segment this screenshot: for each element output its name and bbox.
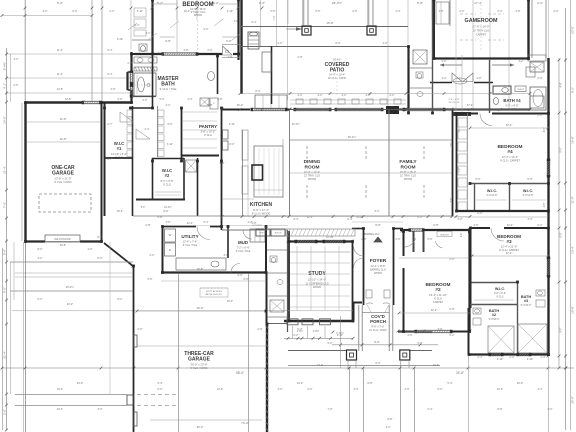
window: south bath2 — [490, 352, 502, 354]
svg-text:6'-8": 6'-8" — [560, 232, 563, 237]
svg-text:6'-5": 6'-5" — [353, 10, 358, 13]
svg-text:12'-4": 12'-4" — [507, 223, 514, 227]
svg-text:5'-0"x8'-0": 5'-0"x8'-0" — [521, 304, 532, 307]
window row extra ticks — [239, 108, 242, 111]
svg-text:3'-0": 3'-0" — [458, 218, 463, 221]
svg-text:14'-2": 14'-2" — [297, 381, 304, 385]
bottom row extra ticks — [24, 367, 27, 370]
svg-text:9'-0": 9'-0" — [560, 327, 563, 332]
dimension line: right margin vertical 2 — [558, 58, 560, 368]
svg-text:20'-0": 20'-0" — [67, 303, 73, 306]
wall: WIC2 south thick — [136, 199, 185, 201]
window: bedroom3 east — [546, 258, 548, 276]
window: garage north — [83, 100, 100, 102]
svg-text:6'-0": 6'-0" — [38, 298, 43, 301]
svg-text:6'-8": 6'-8" — [165, 39, 171, 43]
wall: master bath north jog — [131, 53, 135, 55]
svg-text:9' CLG / WOOD: 9' CLG / WOOD — [252, 212, 271, 216]
svg-text:8'-0": 8'-0" — [336, 42, 341, 45]
svg-text:9' CLG: 9' CLG — [204, 134, 212, 137]
svg-text:8'-0": 8'-0" — [560, 147, 563, 152]
svg-text:6'-8": 6'-8" — [417, 1, 423, 5]
svg-text:3'-1": 3'-1" — [158, 52, 163, 55]
fixture: pool bath wh — [413, 50, 427, 64]
kitchen island bold — [252, 165, 263, 180]
svg-text:5'-0": 5'-0" — [328, 342, 333, 345]
svg-text:12'-4" x 7'-4": 12'-4" x 7'-4" — [183, 240, 198, 244]
wall: bed2 block south exterior — [398, 331, 432, 333]
svg-text:5'-4": 5'-4" — [108, 49, 113, 52]
patio post west — [302, 26, 311, 35]
svg-text:3'-0": 3'-0" — [3, 409, 7, 415]
svg-text:4'-1": 4'-1" — [3, 83, 7, 89]
door: bedroom2 arcs — [404, 238, 415, 247]
svg-text:8'-0": 8'-0" — [376, 362, 381, 365]
wall: wic row south thick — [456, 210, 548, 212]
patio beam arrows to post — [296, 27, 302, 31]
wall: bedroom2 west — [403, 231, 405, 256]
door: utility arc — [197, 227, 210, 240]
svg-text:4'-0": 4'-0" — [537, 1, 543, 5]
wall: bedroom3 north — [470, 227, 490, 229]
svg-text:4'-5": 4'-5" — [439, 10, 444, 13]
svg-text:8'-0": 8'-0" — [38, 248, 43, 251]
svg-text:10'-0": 10'-0" — [497, 388, 503, 391]
svg-text:5'-2": 5'-2" — [157, 1, 163, 5]
svg-text:WOOD: WOOD — [374, 272, 382, 275]
svg-text:6'-0"x4'-8": 6'-0"x4'-8" — [523, 194, 534, 197]
fixture: master wet room — [134, 73, 156, 96]
svg-text:6'-8": 6'-8" — [226, 39, 232, 43]
svg-text:5'-0": 5'-0" — [204, 28, 209, 31]
hall dimension ticks row — [222, 216, 470, 218]
dimension line: bottom overall — [2, 367, 574, 369]
svg-text:3'-2": 3'-2" — [519, 60, 524, 63]
interior dim line: study — [290, 251, 350, 253]
svg-text:10'-8": 10'-8" — [60, 243, 67, 247]
window: bedroom2 south — [416, 329, 451, 331]
kitchen perimeter counter — [254, 146, 283, 197]
svg-text:8'-0": 8'-0" — [97, 235, 102, 239]
svg-text:2'-8": 2'-8" — [145, 223, 150, 227]
window sill lines patio — [290, 99, 406, 101]
svg-text:8'-6": 8'-6" — [168, 123, 173, 126]
fixture: master vanity counter — [134, 57, 157, 63]
svg-text:2'-0": 2'-0" — [554, 10, 559, 13]
svg-text:5'-4": 5'-4" — [447, 381, 452, 385]
svg-text:12'-10": 12'-10" — [326, 235, 334, 239]
closet hatch strip — [270, 300, 284, 312]
svg-text:12'-8" x 21'-0": 12'-8" x 21'-0" — [54, 177, 71, 181]
svg-text:4'-0": 4'-0" — [278, 42, 283, 45]
outdoor kitchen wall — [271, 46, 273, 104]
svg-text:6'-4": 6'-4" — [252, 21, 257, 24]
wall: three-car garage east hatched — [266, 324, 268, 432]
fixture: bath4 toilet — [493, 98, 498, 105]
svg-text:11'-2": 11'-2" — [57, 73, 63, 76]
svg-text:4'-0": 4'-0" — [298, 94, 303, 97]
long dimension line y311 — [12, 310, 353, 312]
wall: wic divider west — [474, 183, 476, 211]
svg-text:30'-0" x 23'-8": 30'-0" x 23'-8" — [190, 363, 207, 367]
svg-text:3'-6": 3'-6" — [354, 388, 359, 391]
xbox: patio slab bath3 — [518, 324, 547, 353]
door: bedroom3 arc — [491, 228, 504, 241]
driveway apron lines solid — [15, 394, 127, 396]
svg-text:#4: #4 — [507, 149, 513, 155]
svg-text:FOYER: FOYER — [370, 258, 387, 264]
fixture: pool bath toilet — [416, 72, 423, 78]
svg-text:2'-6": 2'-6" — [208, 49, 213, 52]
svg-text:2'-0": 2'-0" — [510, 356, 515, 359]
wall: master bath south / WIC1 north — [131, 107, 152, 109]
svg-text:8x8 OH DOOR: 8x8 OH DOOR — [55, 238, 71, 241]
interior dim line: bedroom2 lower — [399, 312, 469, 314]
svg-text:12'-8": 12'-8" — [60, 137, 67, 141]
svg-text:2'-0": 2'-0" — [150, 254, 155, 257]
svg-text:3'-0": 3'-0" — [234, 20, 239, 23]
dimension line: left margin vertical — [6, 48, 8, 430]
walkway stub lines — [347, 360, 349, 368]
patio east wall — [407, 46, 409, 113]
hall lines between wics — [133, 215, 197, 217]
svg-text:DINING: DINING — [304, 159, 321, 165]
vertical dim lines interior — [455, 0, 457, 113]
xbox: patio slab bath2 — [488, 326, 514, 353]
svg-text:2'-4": 2'-4" — [461, 233, 463, 238]
svg-text:BATH #4: BATH #4 — [503, 98, 521, 103]
left margin ticks row2 — [13, 242, 15, 300]
window: master west 2 — [129, 86, 131, 96]
wall: utility south / garage north — [161, 271, 266, 273]
svg-text:4'-2": 4'-2" — [442, 77, 447, 80]
svg-text:WOOD: WOOD — [194, 14, 202, 17]
pool bath walls — [432, 0, 434, 114]
svg-text:8'-2": 8'-2" — [375, 210, 380, 213]
svg-text:8'-0": 8'-0" — [259, 1, 265, 5]
svg-text:ROOM: ROOM — [305, 165, 320, 171]
wall: gameroom west — [433, 0, 435, 58]
svg-text:3'-6": 3'-6" — [405, 388, 410, 391]
svg-text:9' CLG / CONC: 9' CLG / CONC — [190, 367, 207, 370]
wall: WIC2 north — [152, 158, 184, 160]
svg-text:12'-4" x 8'-8": 12'-4" x 8'-8" — [370, 264, 385, 268]
wall: study south hatched — [284, 320, 353, 322]
svg-text:3'-4": 3'-4" — [157, 381, 162, 385]
svg-text:3'-8": 3'-8" — [218, 98, 223, 101]
fixture: powder toilet — [270, 256, 277, 262]
wall: WIC1 east — [132, 106, 134, 216]
wall: angled garage connector — [104, 243, 133, 266]
svg-text:13'-4": 13'-4" — [571, 246, 575, 254]
svg-text:21'-4": 21'-4" — [3, 166, 7, 174]
svg-text:4'-0": 4'-0" — [544, 128, 546, 133]
wall: west exterior master suite — [130, 52, 132, 72]
svg-text:2'-6" x 6'-8": 2'-6" x 6'-8" — [448, 99, 459, 101]
svg-text:6'-4": 6'-4" — [428, 408, 433, 411]
svg-text:6'-2": 6'-2" — [297, 327, 302, 331]
attic access marker foyer — [374, 237, 382, 242]
svg-text:WOOD: WOOD — [308, 178, 316, 181]
dimension drops below study windows — [292, 326, 294, 338]
dimension lines: left yard horizontals — [7, 53, 131, 55]
garage interior dim lines — [27, 121, 100, 123]
garage offset line under utility — [161, 280, 266, 282]
svg-text:4'-4": 4'-4" — [538, 388, 543, 391]
svg-text:PKT DOOR: PKT DOOR — [449, 102, 460, 104]
wall: bedroom4 closet strip west — [456, 113, 458, 211]
closet box gameroom NW — [436, 2, 449, 24]
wall: gameroom east — [527, 0, 529, 58]
wall: bed3 west lower — [468, 308, 470, 355]
svg-text:30'-0": 30'-0" — [197, 425, 204, 429]
garage door label box — [45, 235, 80, 242]
cabinet boxes gameroom corner — [526, 67, 535, 77]
svg-text:5'-0": 5'-0" — [418, 342, 423, 345]
svg-text:20'-8": 20'-8" — [197, 267, 204, 271]
wall: WIC2 west — [152, 158, 154, 199]
wall: family-east/bed4 gap lines — [467, 113, 469, 211]
extension line x177 — [176, 0, 178, 54]
svg-text:1'-6": 1'-6" — [451, 143, 453, 148]
window: master west 1 — [129, 72, 131, 83]
svg-text:5'-0": 5'-0" — [475, 177, 480, 181]
wall: study east — [352, 241, 354, 321]
svg-text:16'-0": 16'-0" — [57, 388, 63, 391]
wall: foyer east — [393, 228, 395, 305]
wall: master water closet east — [217, 56, 219, 94]
svg-text:6'-2": 6'-2" — [538, 224, 543, 227]
svg-text:4'-0": 4'-0" — [390, 94, 395, 97]
left margin extra line — [10, 54, 12, 102]
wall: study west — [288, 231, 290, 321]
svg-text:5'-4": 5'-4" — [204, 221, 209, 224]
svg-text:5'-0": 5'-0" — [527, 177, 532, 181]
svg-text:24'-8": 24'-8" — [456, 371, 464, 375]
svg-text:5'-4": 5'-4" — [3, 249, 7, 255]
wall: dining/family divider — [388, 110, 390, 216]
dim stubs west of outdoor wall — [222, 43, 241, 45]
svg-text:8'-8": 8'-8" — [498, 408, 503, 411]
svg-text:9' CLG: 9' CLG — [496, 297, 503, 299]
interior dim line: bedroom4 — [470, 127, 548, 129]
svg-text:6'-8": 6'-8" — [433, 223, 438, 227]
wall: gameroom south — [434, 57, 530, 59]
svg-text:4'-10": 4'-10" — [497, 357, 504, 361]
svg-text:9' CLG: 9' CLG — [163, 184, 171, 187]
dimension line: top extension lines — [24, 0, 26, 100]
svg-text:12'-8": 12'-8" — [60, 117, 67, 121]
svg-text:8'-4": 8'-4" — [348, 218, 353, 221]
interior dim line: gameroom center dashed — [480, 4, 482, 52]
wall: master bedroom east — [237, 0, 239, 60]
wall: utility west — [162, 226, 164, 272]
svg-text:W.I.C.: W.I.C. — [495, 287, 505, 291]
svg-text:5'-6": 5'-6" — [428, 238, 433, 241]
svg-text:8'-2": 8'-2" — [118, 298, 123, 301]
svg-text:16'-0": 16'-0" — [237, 103, 244, 107]
svg-text:5'-6": 5'-6" — [271, 10, 276, 13]
svg-text:3'-6": 3'-6" — [117, 97, 122, 101]
svg-text:CHEST: CHEST — [517, 89, 525, 91]
svg-text:12'-4" x 13'-4": 12'-4" x 13'-4" — [304, 170, 321, 174]
fixture: bath4 chest — [515, 86, 526, 92]
svg-text:3'-11": 3'-11" — [167, 143, 173, 146]
svg-text:5'-0": 5'-0" — [57, 1, 63, 5]
svg-text:2'-6": 2'-6" — [362, 238, 367, 241]
svg-text:2'-8": 2'-8" — [298, 56, 303, 59]
svg-text:10' CLG / CONC: 10' CLG / CONC — [328, 77, 347, 80]
wall: south wall bed23 block — [469, 353, 549, 355]
svg-text:16'-1½": 16'-1½" — [292, 122, 301, 126]
wall: WIC1 west (garage east) — [104, 103, 106, 216]
dimension marks: master bedroom interior — [160, 36, 175, 38]
closet shelving: WIC2 — [155, 191, 181, 193]
svg-text:5'-0": 5'-0" — [438, 388, 443, 391]
left top tick line — [2, 15, 92, 17]
window: master bedroom south — [163, 52, 197, 54]
svg-text:2'-4": 2'-4" — [145, 128, 150, 131]
shelves box bedroom2 entry — [437, 232, 452, 237]
wall junction posts — [151, 0, 154, 1]
svg-text:4'-8": 4'-8" — [477, 77, 482, 80]
wall: WIC1 south — [104, 157, 133, 159]
dimension ticks: top margin row — [24, 7, 27, 10]
ceiling break lines dining-family — [290, 139, 452, 141]
svg-text:2'-6": 2'-6" — [14, 84, 19, 87]
wall: pantry/hall east — [221, 108, 223, 161]
fixture: utility counter — [176, 258, 226, 270]
wall: bath4 hall north — [430, 82, 452, 84]
svg-text:4'-0": 4'-0" — [88, 248, 93, 251]
svg-text:74'-0": 74'-0" — [241, 421, 249, 425]
wall: master WC divider — [132, 39, 152, 41]
svg-text:8'-6": 8'-6" — [73, 10, 78, 13]
svg-text:#3: #3 — [506, 239, 512, 244]
svg-text:7'-0": 7'-0" — [328, 408, 333, 411]
porch left vertical dim — [340, 316, 342, 368]
svg-text:6'-8" x 6'-0": 6'-8" x 6'-0" — [494, 292, 506, 295]
fixture: outdoor grill — [248, 32, 259, 49]
wall: powder rooms strip — [287, 230, 289, 332]
svg-text:5'-0": 5'-0" — [442, 60, 447, 63]
svg-text:14'-0": 14'-0" — [3, 116, 7, 124]
closet shelving: WIC1 — [127, 110, 132, 117]
wall: north wall garage/casita — [25, 101, 83, 103]
wall: pantry south — [181, 155, 219, 157]
svg-text:12'-0": 12'-0" — [217, 388, 223, 391]
svg-text:4'-2": 4'-2" — [248, 221, 253, 224]
svg-text:48'-1½": 48'-1½" — [348, 135, 357, 139]
svg-text:3'-0": 3'-0" — [224, 254, 229, 257]
svg-text:W.I.C.: W.I.C. — [523, 189, 533, 193]
extension lines above garage — [25, 0, 27, 102]
svg-text:6'-2": 6'-2" — [294, 334, 299, 337]
butler counter hatched band — [286, 229, 355, 236]
svg-text:6'-7": 6'-7" — [108, 158, 113, 161]
door: master WC triangle — [223, 46, 233, 55]
wall: wic divider mid — [509, 183, 511, 211]
svg-text:6'-0": 6'-0" — [511, 108, 516, 111]
svg-text:7'-2": 7'-2" — [459, 168, 461, 173]
driveway edge lines — [10, 261, 133, 263]
dashed car outline — [39, 194, 91, 212]
wall: three-car garage west — [133, 266, 135, 432]
svg-text:4'-4": 4'-4" — [188, 98, 193, 101]
window block closet top — [453, 112, 471, 116]
svg-text:9'-2": 9'-2" — [571, 87, 575, 93]
svg-text:WOOD: WOOD — [313, 286, 321, 289]
svg-text:7'-6": 7'-6" — [3, 202, 7, 208]
svg-text:12'-4": 12'-4" — [506, 123, 513, 127]
kitchen hall lines — [247, 130, 249, 216]
svg-text:BARREL CLG: BARREL CLG — [364, 233, 379, 236]
svg-text:12'-4": 12'-4" — [57, 408, 63, 411]
bedroom label dimension arrows — [152, 3, 177, 5]
svg-text:6'-2": 6'-2" — [498, 10, 503, 13]
fixture: washer dryer — [165, 229, 176, 242]
dimension line: garage mid — [137, 310, 266, 312]
svg-text:6'-10": 6'-10" — [117, 38, 123, 41]
porch rail west double — [358, 305, 360, 351]
svg-text:9' CLG / TILE: 9' CLG / TILE — [236, 250, 251, 253]
svg-text:5'-8": 5'-8" — [148, 278, 153, 281]
svg-text:8'-2": 8'-2" — [417, 215, 422, 219]
svg-text:PANTRY: PANTRY — [199, 124, 217, 129]
dimension line: right margin vertical — [565, 8, 567, 430]
svg-text:2'-2": 2'-2" — [135, 24, 140, 27]
svg-text:6'-0"x4'-8": 6'-0"x4'-8" — [487, 194, 498, 197]
svg-text:3'-6": 3'-6" — [166, 221, 171, 224]
patio beam north — [240, 26, 408, 28]
porch beam east — [409, 350, 432, 352]
svg-text:3'-2": 3'-2" — [43, 10, 48, 13]
wall: hall west of bath4 — [489, 60, 491, 113]
svg-text:24'-0": 24'-0" — [77, 381, 84, 385]
svg-text:W.I.C.: W.I.C. — [487, 189, 497, 193]
hall dim line marks — [352, 221, 403, 223]
cabinet: hall dresser — [453, 78, 467, 84]
driveway block — [127, 395, 133, 405]
wall: bedroom4 north — [456, 113, 478, 115]
svg-text:3'-0": 3'-0" — [237, 273, 242, 277]
laundry chute box — [210, 98, 218, 109]
wic bed2 walls — [470, 282, 517, 284]
svg-text:2'-6": 2'-6" — [408, 334, 413, 337]
window pilaster garage west 1 — [133, 335, 137, 347]
porch rail east double — [388, 305, 390, 351]
wall: family east — [452, 110, 454, 216]
svg-text:CARPET: CARPET — [433, 301, 444, 304]
svg-text:ROOM: ROOM — [401, 165, 416, 171]
svg-text:16'-4": 16'-4" — [117, 209, 124, 213]
svg-text:9' CLG / CONC: 9' CLG / CONC — [54, 181, 71, 184]
svg-text:9'-8": 9'-8" — [367, 381, 372, 385]
coffered ceiling grid study — [296, 246, 298, 310]
svg-text:WOOD: WOOD — [404, 178, 412, 181]
wall: wic row north — [470, 183, 548, 185]
left lot boundary lines — [25, 242, 27, 432]
misc ticks — [221, 108, 224, 111]
svg-text:2'-8": 2'-8" — [128, 62, 133, 65]
hall dim line upper — [196, 225, 288, 227]
wall: dining-family north window wall — [222, 109, 250, 111]
svg-text:2'-6": 2'-6" — [258, 328, 263, 331]
svg-text:12'-4": 12'-4" — [187, 221, 194, 225]
patio post extension lines — [302, 0, 304, 26]
svg-text:5'-11": 5'-11" — [137, 10, 143, 13]
closet shelving: master WC linen — [134, 8, 146, 17]
